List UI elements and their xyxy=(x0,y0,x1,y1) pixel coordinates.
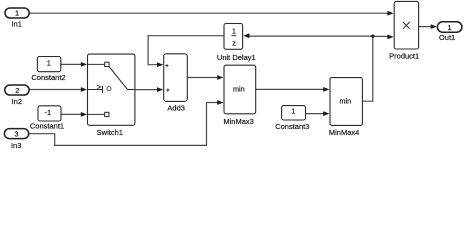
svg-text:In2: In2 xyxy=(12,97,22,106)
svg-text:MinMax4: MinMax4 xyxy=(329,128,359,137)
svg-text:In3: In3 xyxy=(11,141,21,150)
svg-text:1: 1 xyxy=(15,9,19,18)
svg-text:1: 1 xyxy=(448,23,452,32)
svg-text:Constant2: Constant2 xyxy=(31,73,65,82)
svg-text:MinMax3: MinMax3 xyxy=(223,117,253,126)
svg-text:-1: -1 xyxy=(45,108,52,117)
svg-text:min: min xyxy=(233,84,245,93)
svg-text:3: 3 xyxy=(14,129,18,138)
svg-text:Out1: Out1 xyxy=(439,33,455,42)
svg-text:Constant3: Constant3 xyxy=(275,122,309,131)
svg-text:In1: In1 xyxy=(11,19,21,28)
svg-text:Product1: Product1 xyxy=(389,52,419,61)
svg-text:z: z xyxy=(232,38,236,47)
svg-text:min: min xyxy=(340,96,352,105)
svg-text:Constant1: Constant1 xyxy=(30,122,64,131)
svg-text:1: 1 xyxy=(232,27,236,36)
svg-text:1: 1 xyxy=(47,58,51,67)
svg-text:1: 1 xyxy=(291,106,295,115)
svg-text:Switch1: Switch1 xyxy=(97,128,123,137)
svg-text:Unit Delay1: Unit Delay1 xyxy=(217,53,256,62)
svg-text:2: 2 xyxy=(15,86,19,95)
svg-text:Add3: Add3 xyxy=(167,104,185,113)
